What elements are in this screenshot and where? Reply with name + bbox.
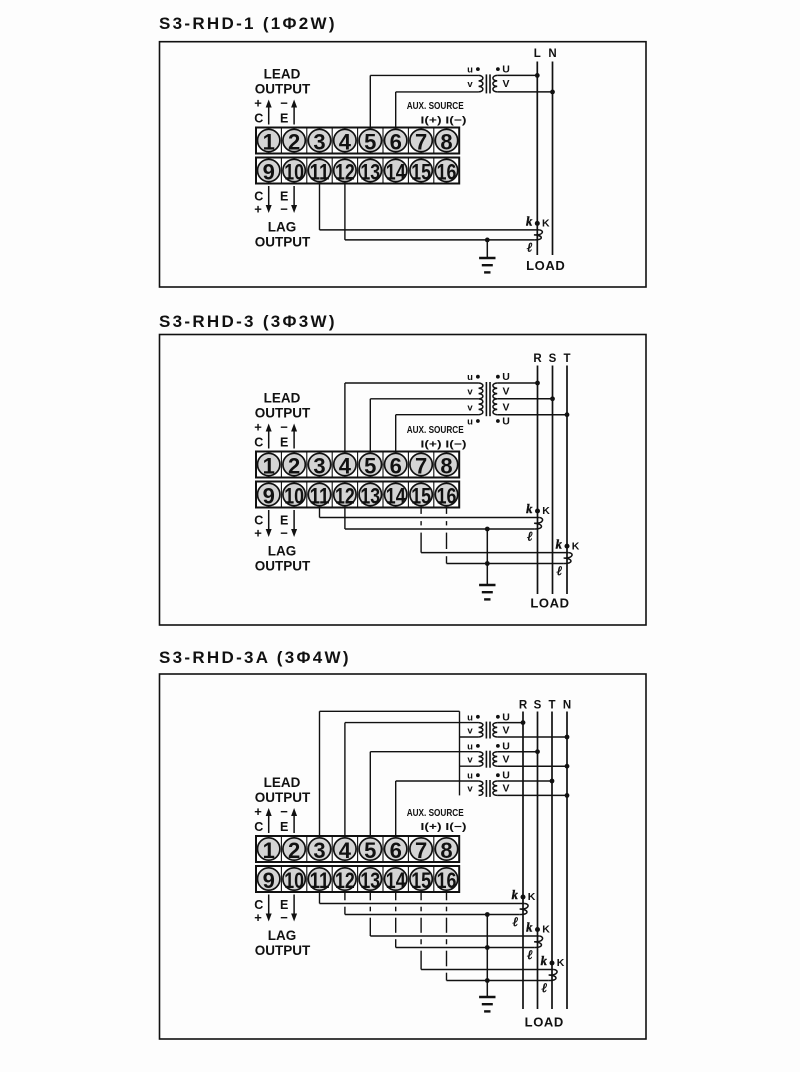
svg-text:v: v [467, 784, 473, 795]
svg-text:u: u [467, 771, 473, 782]
lead output arrow C [266, 424, 272, 449]
transformer PT1 core [486, 74, 490, 93]
terminal 16 [435, 868, 457, 893]
terminal 11 [308, 483, 330, 508]
svg-text:12: 12 [335, 484, 355, 509]
svg-text:−: − [280, 804, 288, 819]
terminal 6 [385, 453, 407, 478]
label u with polarity dot (PT3) [467, 771, 480, 782]
lag output arrow C [266, 510, 272, 537]
svg-text:5: 5 [364, 454, 376, 479]
label U with polarity dot (PT1) [496, 711, 510, 723]
terminal 4 [334, 453, 356, 478]
terminal 13 [359, 868, 381, 893]
svg-text:16: 16 [437, 484, 457, 509]
wire terminal 13 to CT2 K side [370, 892, 539, 936]
svg-text:S3-RHD-3A (3Φ4W): S3-RHD-3A (3Φ4W) [159, 648, 351, 667]
svg-text:LOAD: LOAD [530, 596, 569, 611]
svg-text:LEAD: LEAD [264, 775, 301, 790]
wire terminal 3 to PT common v bus [320, 711, 460, 836]
svg-text:ℓ: ℓ [513, 914, 519, 929]
wire terminal 11 to CT1 K side [320, 892, 525, 904]
transformer PT1-PT2 primary coil [479, 383, 483, 415]
junction dot PT3 U [550, 779, 555, 784]
terminal 15 [410, 868, 432, 893]
label U with polarity dot (PT3) [496, 770, 510, 782]
transformer PT3 core [486, 780, 490, 797]
wire PT1 primary v to common bus [460, 736, 479, 738]
svg-text:k: k [556, 537, 563, 551]
svg-text:v: v [467, 386, 473, 397]
current transformer CT2 dot K [565, 544, 570, 549]
lag output arrow E [291, 895, 297, 922]
wire terminal 14 to CT2 l side [396, 892, 535, 948]
transformer PT1 core [486, 722, 490, 739]
current transformer CT3 secondary coil [549, 970, 557, 981]
wire terminal 15 to CT2 K side [421, 508, 569, 553]
junction dot U1-R [535, 381, 540, 386]
wire PT secondary V to line S [497, 398, 552, 400]
svg-text:U: U [502, 770, 510, 782]
svg-text:15: 15 [411, 868, 431, 893]
svg-text:9: 9 [263, 868, 275, 893]
svg-text:S3-RHD-1 (1Φ2W): S3-RHD-1 (1Φ2W) [159, 14, 337, 33]
svg-text:−: − [280, 526, 288, 541]
svg-text:U: U [502, 416, 510, 428]
svg-text:LAG: LAG [268, 220, 297, 235]
svg-text:16: 16 [437, 868, 457, 893]
transformer PT1-PT2 secondary coil [493, 383, 497, 415]
svg-text:V: V [502, 401, 509, 413]
svg-text:13: 13 [360, 868, 380, 893]
transformer PT1 primary coil [479, 75, 483, 92]
svg-text:1: 1 [263, 454, 275, 479]
svg-text:S: S [534, 700, 542, 712]
svg-text:9: 9 [263, 160, 275, 185]
transformer PT2 core [486, 751, 490, 768]
svg-text:k: k [526, 921, 533, 935]
svg-text:7: 7 [415, 454, 427, 479]
terminal 14 [385, 159, 407, 184]
svg-text:14: 14 [386, 160, 406, 185]
svg-text:5: 5 [364, 130, 376, 155]
wire line T [566, 366, 568, 595]
svg-text:16: 16 [437, 160, 457, 185]
transformer PT1 secondary coil [493, 723, 497, 737]
terminal 4 [334, 838, 356, 863]
svg-text:+: + [254, 202, 262, 217]
svg-text:u: u [467, 372, 473, 383]
svg-text:C: C [254, 435, 263, 449]
terminal 15 [410, 483, 432, 508]
ground [479, 564, 495, 600]
svg-text:8: 8 [440, 838, 452, 863]
svg-text:OUTPUT: OUTPUT [255, 82, 311, 97]
terminal 5 [359, 453, 381, 478]
terminal 13 [359, 483, 381, 508]
svg-text:u: u [467, 417, 473, 428]
svg-text:+: + [254, 526, 262, 541]
current transformer CT1 dot K [535, 509, 540, 514]
wire terminal 5 to PT primary v common [370, 399, 478, 452]
svg-text:AUX. SOURCE: AUX. SOURCE [407, 807, 464, 819]
svg-text:V: V [502, 385, 509, 397]
panel S3-RHD-3 border [160, 335, 647, 626]
terminal 8 [435, 453, 457, 478]
svg-text:14: 14 [386, 868, 406, 893]
svg-text:4: 4 [339, 838, 352, 863]
svg-text:ℓ: ℓ [527, 529, 533, 544]
svg-text:K: K [542, 924, 550, 936]
wire PT3 secondary V to line N [497, 794, 567, 796]
svg-text:LEAD: LEAD [264, 391, 301, 406]
svg-text:R: R [519, 700, 528, 712]
svg-text:v: v [467, 79, 473, 90]
panel S3-RHD-3A border [160, 674, 647, 1039]
svg-text:LAG: LAG [268, 928, 297, 943]
svg-text:10: 10 [284, 160, 304, 185]
terminal 1 [258, 453, 280, 478]
svg-text:u: u [467, 741, 473, 752]
current transformer CT1 dot K [521, 895, 526, 900]
terminal 2 [283, 838, 305, 863]
svg-text:v: v [467, 402, 473, 413]
transformer PT1 primary coil [479, 723, 483, 737]
terminal 5 [359, 129, 381, 154]
svg-text:3: 3 [313, 130, 325, 155]
transformer PT1 secondary coil [493, 75, 497, 92]
terminal 4 [334, 129, 356, 154]
label U with polarity dot (PT1) [496, 371, 510, 383]
svg-text:6: 6 [390, 130, 402, 155]
svg-text:OUTPUT: OUTPUT [255, 406, 311, 421]
terminal 16 [435, 483, 457, 508]
svg-text:−: − [280, 420, 288, 435]
svg-text:6: 6 [390, 454, 402, 479]
wire terminal 6 to PT primary v [396, 92, 479, 128]
svg-text:3: 3 [313, 838, 325, 863]
terminal 7 [410, 129, 432, 154]
svg-text:T: T [563, 353, 570, 365]
svg-text:11: 11 [310, 484, 330, 509]
svg-text:AUX. SOURCE: AUX. SOURCE [407, 424, 464, 436]
ground [479, 981, 495, 1012]
junction dot V-N [550, 90, 555, 95]
wire terminal 6 to PT2 primary u [396, 415, 479, 452]
svg-text:10: 10 [284, 484, 304, 509]
svg-text:OUTPUT: OUTPUT [255, 943, 311, 958]
wire terminal 5 to PT primary u [370, 75, 478, 127]
svg-text:N: N [563, 700, 571, 712]
wire terminal 16 to CT3 l side [447, 892, 549, 981]
terminal 6 [385, 129, 407, 154]
wire PT2 secondary V to line N [497, 765, 567, 767]
svg-text:V: V [502, 783, 509, 795]
svg-text:+: + [254, 420, 262, 435]
terminal 10 [283, 483, 305, 508]
svg-text:v: v [467, 725, 473, 736]
svg-text:LOAD: LOAD [526, 258, 565, 273]
transformer PT2 secondary coil [493, 752, 497, 766]
terminal 12 [334, 483, 356, 508]
svg-text:ℓ: ℓ [557, 563, 563, 578]
wire terminal 12 to CT1 l side [345, 184, 534, 240]
label u with polarity dot [467, 65, 480, 76]
wire terminal 11 to CT1 K side [320, 184, 540, 230]
svg-text:8: 8 [440, 130, 452, 155]
wire ground riser [486, 529, 488, 564]
junction dot ground tap CT1 [485, 527, 490, 532]
wire terminal 5 to PT2 primary u [370, 752, 478, 836]
svg-text:−: − [280, 910, 288, 925]
current transformer CT1 dot K [535, 221, 540, 226]
junction dot PT1 U [521, 720, 526, 725]
wire PT3 secondary U to phase line [497, 780, 552, 782]
svg-text:I(+) I(−): I(+) I(−) [421, 115, 467, 127]
svg-text:4: 4 [339, 130, 352, 155]
junction dot PT2 U [535, 749, 540, 754]
svg-text:11: 11 [310, 160, 330, 185]
svg-text:OUTPUT: OUTPUT [255, 559, 311, 574]
terminal 7 [410, 453, 432, 478]
wire line T [551, 712, 553, 1010]
svg-text:5: 5 [364, 838, 376, 863]
svg-text:E: E [280, 820, 288, 834]
svg-text:U: U [502, 740, 510, 752]
svg-text:+: + [254, 804, 262, 819]
svg-text:6: 6 [390, 838, 402, 863]
terminal block [256, 836, 459, 892]
terminal 13 [359, 159, 381, 184]
wire PT2 secondary U to line T [497, 414, 567, 416]
transformer PT2 primary coil [479, 752, 483, 766]
label U with polarity dot (PT2) [496, 416, 510, 428]
terminal 15 [410, 159, 432, 184]
svg-text:14: 14 [386, 484, 406, 509]
svg-text:1: 1 [263, 838, 275, 863]
terminal 12 [334, 868, 356, 893]
lag output arrow E [291, 510, 297, 537]
terminal 9 [258, 868, 280, 893]
terminal 8 [435, 129, 457, 154]
wire terminal 11 to CT1 K side [320, 508, 540, 518]
svg-text:N: N [548, 48, 556, 60]
svg-text:U: U [502, 711, 510, 723]
junction dot PT1 V-N [565, 735, 570, 740]
svg-text:8: 8 [440, 454, 452, 479]
svg-text:LEAD: LEAD [264, 67, 301, 82]
svg-text:2: 2 [288, 838, 300, 863]
terminal 3 [308, 129, 330, 154]
transformer PT3 primary coil [479, 781, 483, 795]
svg-text:OUTPUT: OUTPUT [255, 790, 311, 805]
svg-text:V: V [502, 753, 509, 765]
svg-text:1: 1 [263, 130, 275, 155]
terminal 16 [435, 159, 457, 184]
svg-text:C: C [254, 111, 263, 125]
svg-text:+: + [254, 96, 262, 111]
wire line R [537, 366, 539, 595]
terminal 14 [385, 868, 407, 893]
wire PT2 primary v to common bus [460, 765, 479, 767]
current transformer CT1 secondary coil [534, 230, 542, 240]
wire terminal 12 to CT1 l side [345, 508, 534, 530]
svg-text:LOAD: LOAD [525, 1015, 564, 1030]
svg-text:S: S [549, 353, 557, 365]
svg-text:9: 9 [263, 484, 275, 509]
wire line S [552, 366, 554, 595]
lead output arrow C [266, 100, 272, 125]
svg-text:11: 11 [310, 868, 330, 893]
svg-text:7: 7 [415, 838, 427, 863]
junction dot ground tap CT3 [485, 978, 490, 983]
terminal 10 [283, 159, 305, 184]
current transformer CT1 secondary coil [520, 904, 528, 915]
terminal 8 [435, 838, 457, 863]
label u with polarity dot (PT1) [467, 712, 480, 723]
svg-text:L: L [534, 48, 541, 60]
ground [479, 240, 495, 273]
svg-text:u: u [467, 712, 473, 723]
svg-text:13: 13 [360, 160, 380, 185]
svg-text:R: R [533, 353, 542, 365]
terminal 9 [258, 483, 280, 508]
wire PT1 secondary U to phase line [497, 722, 523, 724]
lag output arrow C [266, 895, 272, 922]
terminal 9 [258, 159, 280, 184]
wire line L [536, 62, 538, 256]
wire PT2 secondary U to phase line [497, 751, 537, 753]
svg-text:4: 4 [339, 454, 352, 479]
svg-text:K: K [542, 505, 550, 517]
terminal 14 [385, 483, 407, 508]
svg-text:E: E [280, 435, 288, 449]
svg-text:v: v [467, 754, 473, 765]
svg-text:ℓ: ℓ [542, 980, 548, 995]
svg-text:12: 12 [335, 160, 355, 185]
svg-text:I(+) I(−): I(+) I(−) [421, 439, 467, 451]
lead output arrow E [291, 424, 297, 449]
lead output arrow E [291, 808, 297, 833]
svg-text:u: u [467, 65, 473, 76]
terminal 5 [359, 838, 381, 863]
transformer PT3 secondary coil [493, 781, 497, 795]
wire terminal 12 to CT1 l side [345, 892, 520, 915]
junction dot ground tap CT2 [485, 945, 490, 950]
junction dot ground tap [485, 238, 490, 243]
label U with polarity dot (PT2) [496, 740, 510, 752]
wire PT secondary U to line L [497, 74, 537, 76]
svg-text:12: 12 [335, 868, 355, 893]
terminal 2 [283, 129, 305, 154]
svg-text:E: E [280, 111, 288, 125]
lag output arrow E [291, 186, 297, 213]
terminal 12 [334, 159, 356, 184]
label U with polarity dot [496, 64, 510, 76]
junction dot U-L [535, 73, 540, 78]
svg-text:LAG: LAG [268, 544, 297, 559]
svg-text:+: + [254, 910, 262, 925]
svg-text:15: 15 [411, 484, 431, 509]
current transformer CT1 secondary coil [534, 518, 542, 530]
svg-text:U: U [502, 64, 510, 76]
svg-text:ℓ: ℓ [527, 947, 533, 962]
wire terminal 4 to PT1 primary u [345, 723, 479, 836]
svg-text:ℓ: ℓ [527, 239, 533, 254]
svg-text:13: 13 [360, 484, 380, 509]
svg-text:−: − [280, 96, 288, 111]
panel S3-RHD-1 border [160, 42, 647, 287]
junction dot ground tap CT1 [485, 912, 490, 917]
wire line N [566, 712, 568, 1010]
svg-text:k: k [512, 888, 519, 902]
svg-text:15: 15 [411, 160, 431, 185]
svg-text:V: V [502, 724, 509, 736]
svg-text:2: 2 [288, 130, 300, 155]
terminal 1 [258, 838, 280, 863]
wire line R [522, 712, 524, 1010]
terminal 3 [308, 838, 330, 863]
svg-text:AUX. SOURCE: AUX. SOURCE [407, 100, 464, 112]
current transformer CT2 dot K [535, 927, 540, 932]
wire PT secondary V to line N [497, 91, 552, 93]
svg-text:−: − [280, 202, 288, 217]
junction dot PT2 V-N [565, 764, 570, 769]
lead output arrow C [266, 808, 272, 833]
wire terminal 6 to PT3 primary u [396, 781, 479, 836]
svg-text:S3-RHD-3 (3Φ3W): S3-RHD-3 (3Φ3W) [159, 312, 337, 331]
svg-text:C: C [254, 820, 263, 834]
terminal 6 [385, 838, 407, 863]
terminal block [256, 452, 459, 508]
svg-text:K: K [572, 540, 580, 552]
wire line N [552, 62, 554, 256]
svg-text:10: 10 [284, 868, 304, 893]
terminal 3 [308, 453, 330, 478]
svg-text:k: k [541, 954, 548, 968]
svg-text:K: K [528, 891, 536, 903]
junction dot U2-T [565, 412, 570, 417]
wire PT1 secondary V to line N [497, 736, 567, 738]
terminal 2 [283, 453, 305, 478]
terminal 10 [283, 868, 305, 893]
svg-text:3: 3 [313, 454, 325, 479]
wire terminal 16 to CT2 l side [447, 508, 564, 564]
terminal 11 [308, 159, 330, 184]
terminal 7 [410, 838, 432, 863]
svg-text:U: U [502, 371, 510, 383]
terminal 1 [258, 129, 280, 154]
current transformer CT3 dot K [550, 961, 555, 966]
junction dot PT3 V-N [565, 793, 570, 798]
svg-text:k: k [526, 502, 533, 516]
lead output arrow E [291, 100, 297, 125]
wire PT1 secondary U to line R [497, 382, 537, 384]
transformer PT1-PT2 core [486, 382, 490, 416]
svg-text:K: K [557, 957, 565, 969]
label u with polarity dot (PT2) [467, 741, 480, 752]
svg-text:V: V [502, 78, 509, 90]
label u with polarity dot (PT1) [467, 372, 480, 383]
svg-text:I(+) I(−): I(+) I(−) [421, 821, 467, 833]
svg-text:k: k [526, 215, 533, 229]
current transformer CT2 secondary coil [564, 553, 572, 564]
wire terminal 4 to PT1 primary u [345, 383, 479, 452]
label u with polarity dot (PT2) [467, 417, 480, 428]
svg-text:K: K [542, 218, 550, 230]
current transformer CT2 secondary coil [534, 936, 542, 948]
svg-text:2: 2 [288, 454, 300, 479]
